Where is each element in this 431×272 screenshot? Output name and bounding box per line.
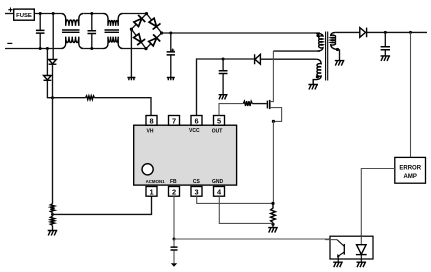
svg-text:1: 1 — [150, 188, 154, 197]
fuse F1 — [14, 9, 35, 20]
capacitor C4 (VCC) — [222, 59, 224, 70]
capacitor C1 — [39, 14, 41, 31]
junction dot — [39, 47, 42, 50]
wire FB to optocoupler — [174, 238, 330, 240]
wire AC sense from top rail — [52, 14, 54, 60]
ground (slash) output — [381, 56, 391, 61]
junction dot bridge bottom — [144, 47, 147, 50]
wire OUT pin 5 riser — [219, 104, 243, 116]
junction dot source — [272, 120, 275, 123]
svg-text:8: 8 — [150, 117, 154, 126]
error amp block U2 — [395, 157, 426, 183]
bridge diode D-BL — [134, 34, 145, 45]
wire bottom rail to bridge — [123, 48, 146, 50]
node - input terminal — [7, 42, 12, 44]
optocoupler U3 box — [330, 236, 373, 259]
ground (slash) auxiliary — [308, 85, 318, 90]
wire bottom AC rail — [5, 48, 61, 50]
ground (slash) secondary — [335, 61, 345, 66]
pin 7 box — [169, 116, 180, 126]
svg-text:6: 6 — [195, 117, 199, 126]
wire DC+ rail — [162, 32, 320, 34]
IC U1 pin-1 indicator circle — [142, 164, 153, 175]
bridge rectifier BR1 edges — [131, 14, 161, 49]
svg-text:VCC: VCC — [189, 128, 200, 134]
transistor Q1 source lead — [270, 108, 282, 122]
svg-text:VH: VH — [147, 129, 154, 135]
pin 6 box — [191, 116, 202, 126]
junction dot bridge top — [145, 12, 148, 15]
transistor Q1 gate bar — [266, 101, 268, 109]
transformer primary phasing dot — [316, 34, 319, 37]
common-mode choke L1 core — [62, 30, 80, 32]
common-mode choke L1 lower winding — [61, 37, 83, 49]
junction dot error amp tap — [409, 31, 412, 34]
IC U1 body — [134, 125, 237, 185]
optocoupler phototransistor — [325, 239, 337, 241]
junction dot — [90, 47, 93, 50]
wire secondary to output diode — [335, 31, 360, 33]
node + input terminal — [8, 8, 12, 12]
svg-text:2: 2 — [172, 188, 176, 197]
svg-text:7: 7 — [172, 117, 176, 126]
bridge diode D-TL — [134, 15, 145, 27]
transistor Q1 drain lead — [270, 51, 274, 102]
wire bridge negative to ground — [130, 29, 132, 77]
wire output to error amp — [410, 32, 412, 157]
bridge diode D-TR — [149, 18, 160, 29]
wire top rail to bridge — [123, 13, 147, 15]
svg-text:FB: FB — [170, 179, 177, 185]
capacitor C3 (bulk) — [170, 33, 172, 52]
ground (arrow) under C6 — [171, 263, 177, 267]
svg-text:OUT: OUT — [212, 129, 223, 135]
common-mode choke L2 upper winding — [104, 14, 123, 26]
pin 1 box — [146, 187, 157, 197]
ground (slash) under phototransistor — [333, 262, 343, 267]
common-mode choke L2 lower winding — [104, 37, 123, 49]
junction dot bridge left — [130, 28, 133, 31]
svg-text:AMP: AMP — [404, 174, 417, 180]
common-mode choke L1 upper winding — [61, 14, 83, 26]
wire node to VH resistor — [53, 97, 86, 99]
wire bottom rail between chokes — [84, 48, 104, 50]
ground (slash) under divider — [48, 231, 58, 236]
svg-text:ACMON1: ACMON1 — [146, 179, 166, 184]
bridge diode D-BR — [149, 34, 161, 46]
ground (rake) under bridge — [127, 78, 135, 81]
wire + lead to fuse — [5, 13, 14, 15]
capacitor C2 — [91, 14, 93, 31]
svg-text:5: 5 — [217, 117, 221, 126]
wire source down to CS node — [272, 121, 274, 203]
junction dot divider tap — [51, 213, 54, 216]
junction dot — [46, 47, 49, 50]
svg-text:3: 3 — [195, 188, 199, 197]
wire FB pin 2 down — [173, 196, 175, 239]
ground (rake) under bulk cap — [167, 78, 175, 81]
wire top rail between chokes — [84, 13, 104, 15]
transformer T1 auxiliary winding — [313, 59, 321, 84]
diode D3 (VCC rectifier, pointing left) — [255, 54, 261, 64]
wire tap to pin 1 — [53, 196, 152, 216]
junction dot FB node — [173, 238, 176, 241]
diode D4 (output rectifier, pointing right) — [360, 28, 367, 38]
common-mode choke L2 core — [105, 30, 120, 32]
wire top AC rail — [34, 13, 61, 15]
junction dot output cap — [384, 31, 387, 34]
wire output rail — [367, 31, 427, 33]
junction dot CS node — [271, 202, 274, 205]
wire node down to divider — [52, 98, 54, 204]
optocoupler LED — [360, 236, 362, 244]
capacitor C6 (FB) — [173, 239, 175, 247]
ground (slash) under sense resistor — [268, 228, 278, 233]
transformer T1 primary winding — [316, 33, 323, 51]
wire CS pin 3 down and right — [197, 196, 273, 203]
transformer secondary phasing dot — [336, 48, 339, 51]
svg-text:ERROR: ERROR — [399, 165, 421, 171]
wire secondary bottom to ground — [337, 49, 340, 60]
pin 8 box — [146, 116, 157, 126]
transformer T1 core — [326, 32, 328, 81]
transistor Q1 channel bar — [269, 100, 271, 109]
wire diode to aux winding — [260, 58, 316, 60]
junction dot — [39, 12, 42, 15]
pin 2 box — [169, 187, 180, 197]
junction dot bulk cap — [169, 32, 172, 35]
pin 4 box — [214, 187, 225, 197]
capacitor C3 polarity + — [171, 49, 174, 52]
svg-text:GND: GND — [212, 179, 224, 185]
wire drain to primary — [273, 50, 320, 52]
transformer auxiliary phasing dot — [316, 75, 319, 78]
capacitor C5 (output) — [384, 32, 386, 46]
resistor R2 (divider upper) — [50, 204, 54, 213]
resistor R1 (VH series) — [86, 96, 95, 100]
wire gate resistor to MOSFET gate — [252, 103, 266, 105]
wire AC sense from bottom rail — [46, 49, 48, 76]
wire GND pin 4 down and right — [219, 196, 273, 223]
wire VCC node to diode — [223, 58, 254, 60]
junction dot VCC node — [222, 58, 225, 61]
ground (slash) under LED — [357, 262, 367, 267]
wire resistor to pin 8 — [95, 98, 152, 116]
ground (slash) under C4 — [219, 95, 228, 100]
junction dot bridge right — [160, 31, 163, 34]
junction dot AC sense node — [51, 96, 54, 99]
svg-text:CS: CS — [193, 179, 201, 185]
transformer T1 secondary winding — [331, 32, 337, 49]
wire VCC pin 6 riser — [197, 59, 224, 116]
resistor R3 (divider lower) — [50, 216, 54, 225]
junction dot — [52, 12, 55, 15]
resistor R4 (gate) — [243, 101, 252, 106]
junction dot — [90, 12, 93, 15]
junction dot sense bottom — [271, 223, 274, 226]
pin 3 box — [191, 187, 202, 197]
wire error amp to optocoupler LED — [361, 169, 395, 237]
diode D2 (from bottom rail) — [44, 76, 52, 80]
resistor R5 (current sense) — [271, 203, 276, 222]
diode D1 (from top rail) — [49, 59, 57, 63]
pin 5 box — [214, 116, 225, 126]
svg-text:FUSE: FUSE — [16, 13, 32, 19]
